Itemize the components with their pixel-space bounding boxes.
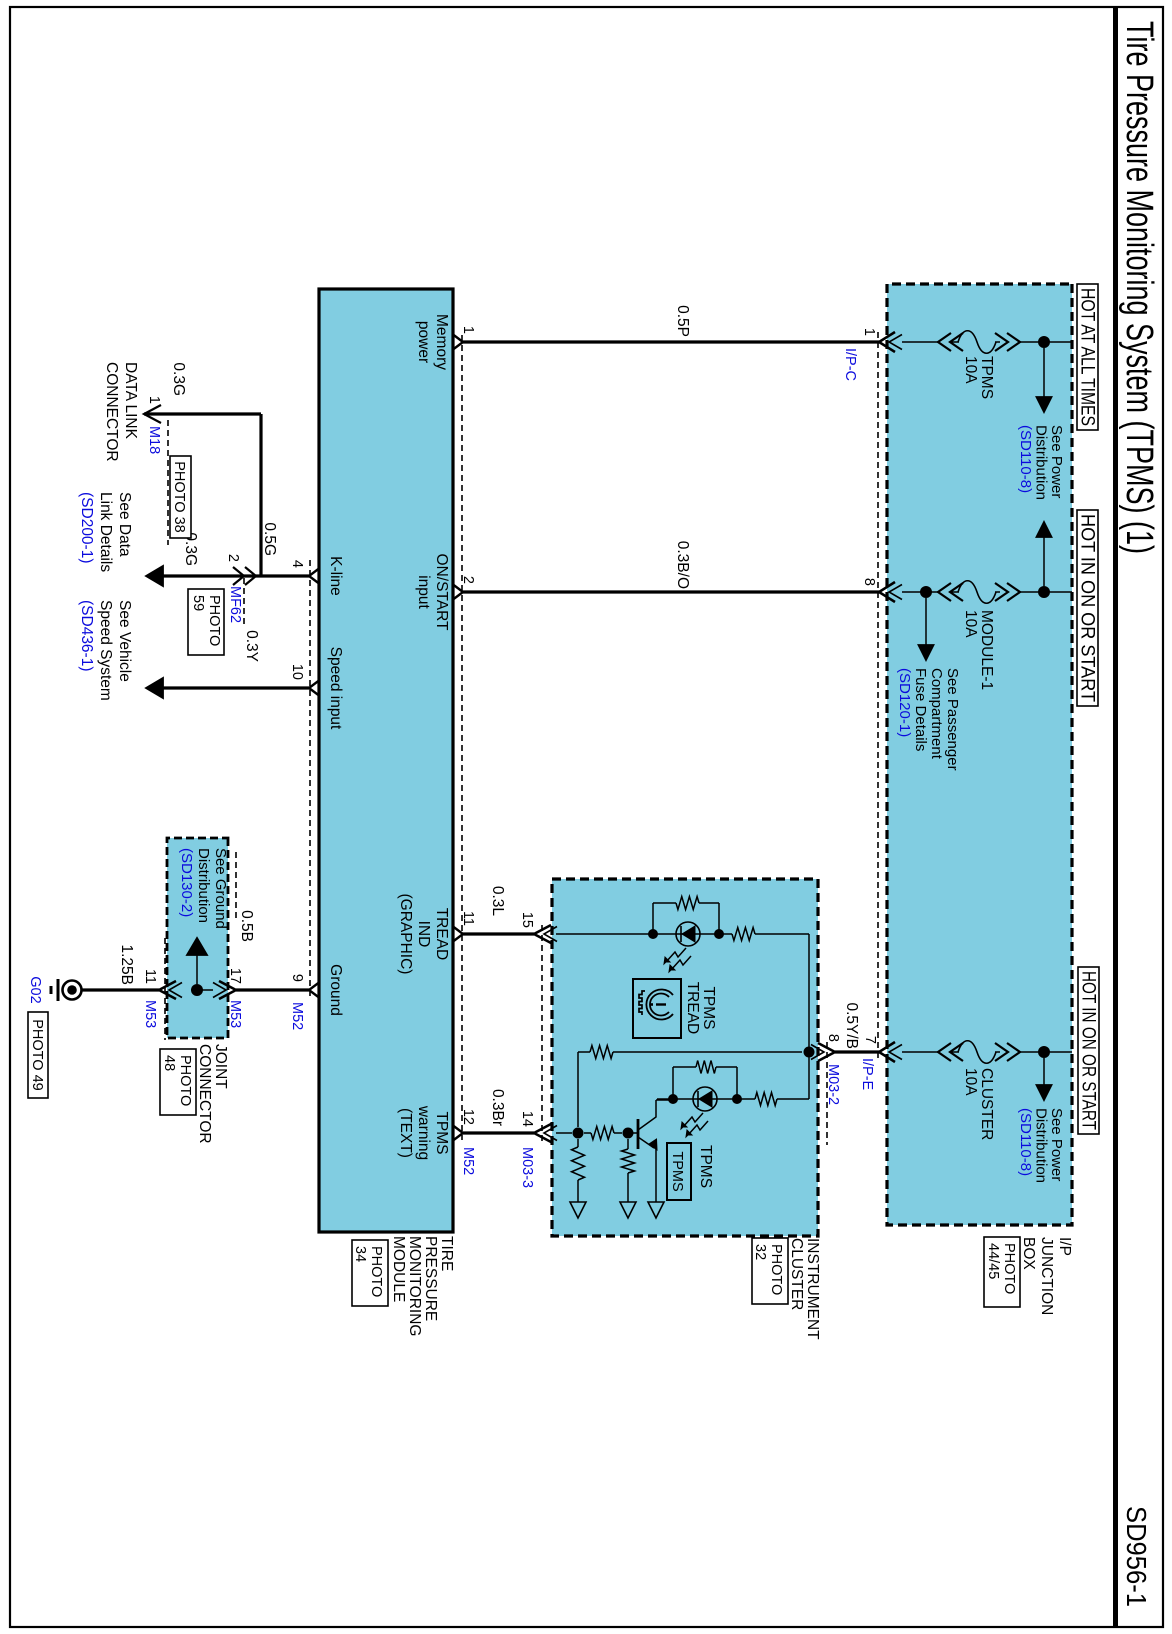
svg-text:CONNECTOR: CONNECTOR <box>103 362 120 462</box>
svg-text:Link Details: Link Details <box>97 492 114 572</box>
svg-text:Distribution: Distribution <box>195 848 212 923</box>
tire pressure monitoring module box <box>319 289 453 1232</box>
svg-text:See Ground: See Ground <box>212 848 229 929</box>
inline connector chevrons above fuse MODULE-1 <box>1007 583 1020 601</box>
fuse CLUSTER element <box>958 1041 996 1064</box>
svg-text:8: 8 <box>825 1034 841 1042</box>
wire module pin12 to cluster pin14, 0.3Br <box>463 1131 534 1134</box>
filled arrow down SD436-1 <box>146 678 163 698</box>
svg-text:input: input <box>415 575 432 609</box>
resistor parallel to LED2 <box>736 1067 738 1099</box>
svg-text:2: 2 <box>460 576 476 584</box>
svg-text:HOT IN ON OR START: HOT IN ON OR START <box>1078 971 1099 1130</box>
ground arrow (emitter) <box>648 1202 664 1218</box>
node LED2 bottom <box>668 1094 678 1104</box>
svg-text:1: 1 <box>861 328 877 336</box>
cluster pin 8 chevrons M03-2 <box>818 1043 835 1061</box>
svg-text:IND: IND <box>415 921 432 948</box>
svg-text:(SD110-8): (SD110-8) <box>1017 425 1034 493</box>
instrument cluster box <box>552 879 818 1236</box>
svg-text:Memory: Memory <box>433 314 450 370</box>
svg-text:(SD200-1): (SD200-1) <box>78 492 95 564</box>
svg-text:(SD120-1): (SD120-1) <box>896 668 913 737</box>
inline connector chevrons below fuse TPMS <box>950 333 963 351</box>
svg-text:warning: warning <box>415 1105 432 1160</box>
wire module pin11 to cluster pin15, 0.3L <box>463 932 534 935</box>
TPMS warning text box <box>667 1143 691 1200</box>
fuse CLUSTER rail <box>1050 1051 1072 1053</box>
svg-text:0.3Br: 0.3Br <box>489 1089 506 1126</box>
joint connector inner wire + dot <box>197 989 213 991</box>
link from TPMS rail to See Power Distribution <box>1043 348 1045 398</box>
junction dot MODULE-1 output <box>920 586 932 598</box>
svg-text:CLUSTER: CLUSTER <box>788 1238 805 1310</box>
arrow to power distribution (left) <box>1037 522 1052 537</box>
junction dot transistor base <box>623 1128 634 1139</box>
module pin 11 chevron <box>453 927 463 942</box>
svg-text:44/45: 44/45 <box>985 1243 1001 1279</box>
svg-text:TPMS: TPMS <box>978 356 995 399</box>
data link connector pin 1 chevron M18 <box>144 405 161 423</box>
joint connector dashed line top <box>235 852 237 918</box>
svg-text:12: 12 <box>460 1109 476 1125</box>
svg-text:0.3G: 0.3G <box>170 362 187 396</box>
svg-text:17: 17 <box>227 968 243 984</box>
svg-text:PHOTO: PHOTO <box>768 1244 784 1295</box>
inline connector chevrons below fuse CLUSTER <box>950 1043 963 1061</box>
arrow to fuse details <box>919 645 934 660</box>
svg-text:See Data: See Data <box>116 492 133 557</box>
svg-text:48: 48 <box>161 1055 177 1071</box>
svg-text:HOT IN ON OR START: HOT IN ON OR START <box>1077 514 1098 702</box>
svg-text:Speed System: Speed System <box>97 600 114 701</box>
svg-text:2: 2 <box>225 554 241 562</box>
HOT IN ON OR START label 1 <box>1077 510 1098 706</box>
PHOTO 59 box <box>188 589 224 655</box>
transistor Q1 <box>628 1132 638 1134</box>
node LED1 bottom <box>648 929 658 939</box>
svg-text:Distribution: Distribution <box>1033 425 1050 500</box>
svg-text:M53: M53 <box>227 1000 243 1028</box>
ground arrow (pin14 pulldown) <box>570 1202 586 1218</box>
svg-text:I/P: I/P <box>1056 1237 1073 1256</box>
svg-text:PRESSURE: PRESSURE <box>422 1236 439 1321</box>
svg-text:JOINT: JOINT <box>212 1044 229 1089</box>
svg-text:MODULE: MODULE <box>390 1236 407 1302</box>
node LED2 top <box>732 1094 742 1104</box>
ground symbol G02 <box>63 981 82 1000</box>
svg-text:M03-2: M03-2 <box>825 1064 841 1105</box>
title separator line <box>1113 7 1118 1627</box>
cluster connector dashed line bottom <box>541 925 543 1145</box>
PHOTO 44/45 box <box>984 1237 1020 1307</box>
joint connector box <box>167 838 228 1038</box>
svg-text:SD956-1: SD956-1 <box>1121 1506 1152 1607</box>
svg-text:TPMS: TPMS <box>697 1145 714 1188</box>
svg-text:Compartment: Compartment <box>928 668 945 760</box>
svg-text:0.3L: 0.3L <box>489 886 506 917</box>
svg-text:(SD110-8): (SD110-8) <box>1017 1108 1034 1176</box>
svg-text:4: 4 <box>289 560 305 568</box>
svg-text:G02: G02 <box>27 976 43 1003</box>
svg-text:K-line: K-line <box>327 556 344 596</box>
pulldown resistor at base node <box>627 1139 629 1149</box>
svg-text:1.25B: 1.25B <box>118 944 135 985</box>
TPMS tread indicator icon box <box>633 979 681 1038</box>
svg-text:ON/START: ON/START <box>433 554 450 631</box>
svg-text:9: 9 <box>289 974 305 982</box>
svg-text:HOT AT ALL TIMES: HOT AT ALL TIMES <box>1077 288 1098 426</box>
svg-text:TPMS: TPMS <box>700 986 717 1029</box>
resistor parallel to LED1 <box>652 903 654 934</box>
svg-text:Tire Pressure Monitoring Syste: Tire Pressure Monitoring System (TPMS) (… <box>1118 21 1160 554</box>
inline connector chevrons above fuse CLUSTER <box>1007 1043 1020 1061</box>
svg-text:0.3Y: 0.3Y <box>243 630 260 662</box>
svg-text:PHOTO: PHOTO <box>368 1246 384 1297</box>
svg-text:8: 8 <box>861 578 877 586</box>
fuse TPMS element <box>958 331 996 354</box>
filled arrow down SD200-1 <box>146 566 163 586</box>
PHOTO 32 box <box>752 1238 788 1304</box>
LED D1 (tread indicator) <box>676 922 700 946</box>
svg-text:10A: 10A <box>962 356 979 384</box>
svg-text:TIRE: TIRE <box>438 1236 455 1271</box>
svg-text:See Power: See Power <box>1048 1108 1065 1181</box>
wire pin7 I/P-E to cluster pin 8, 0.5Y/B <box>835 1050 879 1053</box>
svg-text:TPMS: TPMS <box>669 1151 685 1191</box>
svg-text:DATA LINK: DATA LINK <box>122 362 139 440</box>
svg-text:PHOTO 38: PHOTO 38 <box>171 461 187 532</box>
svg-text:0.5Y/B: 0.5Y/B <box>843 1002 860 1049</box>
svg-text:I/P-E: I/P-E <box>859 1058 875 1091</box>
svg-text:1: 1 <box>146 396 162 404</box>
svg-text:CLUSTER: CLUSTER <box>978 1068 995 1140</box>
LED D2 (TPMS warning) <box>693 1087 717 1111</box>
module connector dashed line (top) <box>461 335 463 1140</box>
wire cluster pin 14 up to node <box>556 1132 572 1134</box>
I/P junction box <box>887 284 1072 1225</box>
svg-text:M03-3: M03-3 <box>519 1147 535 1188</box>
svg-text:I/P-C: I/P-C <box>842 348 858 381</box>
inline connector chevrons below fuse MODULE-1 <box>950 583 963 601</box>
module pin 12 chevron <box>453 1126 463 1141</box>
joint connector junction dot <box>191 984 203 996</box>
arrow to power distribution <box>1037 397 1052 412</box>
junction dot TPMS rail <box>1038 336 1050 348</box>
junction box pin chevrons at MODULE-1 output <box>889 585 902 600</box>
joint connector pin 11 chevrons <box>159 981 176 999</box>
svg-text:34: 34 <box>352 1246 368 1262</box>
svg-text:PHOTO 49: PHOTO 49 <box>29 1019 45 1090</box>
svg-text:10: 10 <box>289 664 305 680</box>
junction box pin chevrons at TPMS output <box>889 335 902 350</box>
svg-text:59: 59 <box>190 595 206 611</box>
wire node to LED1 branch corner <box>808 934 810 1052</box>
junction dot base/pulldown <box>573 1128 584 1139</box>
resistor in series with LED2 <box>755 1093 777 1106</box>
cluster pin 15 chevrons <box>534 925 551 943</box>
svg-text:MODULE-1: MODULE-1 <box>978 610 995 690</box>
resistor base series <box>584 1132 591 1134</box>
resistor in series with LED1 <box>719 933 732 935</box>
svg-text:11: 11 <box>460 911 476 926</box>
LED2 emission arrows <box>683 1113 703 1127</box>
svg-text:(SD130-2): (SD130-2) <box>178 848 195 917</box>
wire module pin 4 K-line down <box>162 574 309 577</box>
branch wire to data link connector <box>259 414 262 576</box>
svg-text:TREAD: TREAD <box>684 982 701 1035</box>
arrow to power distribution (cluster) <box>1037 1085 1052 1100</box>
wire module pin 10 speed input, 0.3Y <box>162 686 309 689</box>
PHOTO 48 box <box>160 1049 196 1115</box>
svg-text:M52: M52 <box>289 1002 305 1030</box>
svg-text:Ground: Ground <box>327 964 344 1016</box>
pulldown resistor at pin14 node <box>577 1139 579 1147</box>
svg-text:MF62: MF62 <box>227 586 243 623</box>
svg-text:M52: M52 <box>460 1147 476 1175</box>
svg-text:See Vehicle: See Vehicle <box>116 600 133 682</box>
wire node to LED2 branch <box>808 1052 810 1099</box>
svg-text:(GRAPHIC): (GRAPHIC) <box>397 894 414 975</box>
svg-text:PHOTO: PHOTO <box>177 1055 193 1106</box>
HOT IN ON OR START label 2 <box>1078 967 1099 1134</box>
wire pin1 I/P-C to module pin 1, 0.5P <box>463 340 879 343</box>
module connector dashed line (bottom) <box>309 560 311 1000</box>
svg-text:MONITORING: MONITORING <box>406 1236 423 1336</box>
svg-text:0.3B/O: 0.3B/O <box>674 541 691 589</box>
svg-text:11: 11 <box>142 969 158 984</box>
junction box pin chevrons at CLUSTER output <box>889 1045 902 1060</box>
MF62 connector dashed line <box>243 578 245 625</box>
svg-text:10A: 10A <box>962 610 979 638</box>
wire LED2 to transistor collector <box>657 1098 673 1100</box>
module pin 1 chevron <box>453 335 463 350</box>
svg-text:0.5G: 0.5G <box>261 522 278 556</box>
svg-text:Speed input: Speed input <box>327 647 344 730</box>
svg-text:1: 1 <box>460 326 476 334</box>
svg-text:PHOTO: PHOTO <box>1001 1243 1017 1294</box>
module pin 10 chevron <box>309 681 319 696</box>
svg-text:TREAD: TREAD <box>433 908 450 961</box>
node LED1 top <box>714 929 724 939</box>
svg-text:10A: 10A <box>962 1068 979 1096</box>
tread icon <box>639 990 673 1020</box>
svg-text:0.5P: 0.5P <box>674 305 691 337</box>
PHOTO 49 box <box>28 1012 48 1098</box>
ground arrow (base pulldown) <box>620 1202 636 1218</box>
junction dot CLUSTER rail <box>1038 1046 1050 1058</box>
svg-text:See Power: See Power <box>1048 425 1065 498</box>
link from MODULE-1 rail to See Power Distribution <box>1043 536 1045 586</box>
junction dot MODULE-1 rail <box>1038 586 1050 598</box>
junction box connector dashed line <box>877 332 879 1062</box>
module pin 2 chevron <box>453 585 463 600</box>
LED1 emission arrows <box>666 948 686 962</box>
joint connector pin 17 chevrons <box>219 981 236 999</box>
node cluster pin8 <box>804 1047 815 1058</box>
module pin 9 chevron <box>309 983 319 998</box>
inline connector chevrons above fuse TPMS <box>1007 333 1020 351</box>
svg-text:Fuse Details: Fuse Details <box>912 668 929 751</box>
joint connector dashed line bottom <box>164 938 166 1040</box>
fuse MODULE-1 rail <box>1050 591 1072 593</box>
svg-text:INSTRUMENT: INSTRUMENT <box>804 1238 821 1340</box>
PHOTO 38 box <box>170 456 191 538</box>
svg-text:CONNECTOR: CONNECTOR <box>196 1044 213 1144</box>
module pin 4 chevron <box>309 569 319 584</box>
svg-text:14: 14 <box>519 1111 535 1127</box>
wire joint pin 11 to ground, 1.25B <box>82 988 159 991</box>
svg-text:M18: M18 <box>146 426 162 454</box>
svg-text:Distribution: Distribution <box>1033 1108 1050 1183</box>
svg-text:(TEXT): (TEXT) <box>397 1108 414 1158</box>
middle resistor from node A to transistor base line <box>613 1051 802 1053</box>
svg-text:TPMS: TPMS <box>433 1111 450 1154</box>
arrow to ground distribution <box>187 938 207 955</box>
svg-text:(SD436-1): (SD436-1) <box>78 600 95 672</box>
wire pin8 to module pin 2, 0.3B/O <box>463 590 879 593</box>
svg-text:7: 7 <box>862 1036 878 1044</box>
svg-text:BOX: BOX <box>1020 1237 1037 1270</box>
LED1 wire from pin 15 <box>556 933 653 935</box>
svg-text:power: power <box>415 321 432 363</box>
cluster connector dashed line top <box>826 1042 828 1145</box>
M18 connector dashed line <box>167 420 169 545</box>
svg-text:PHOTO: PHOTO <box>206 595 222 646</box>
svg-text:15: 15 <box>519 912 535 928</box>
svg-text:32: 32 <box>752 1244 768 1260</box>
cluster pin 14 chevrons M03-3 <box>534 1124 551 1142</box>
fuse MODULE-1 element <box>958 581 996 604</box>
wire module pin 9 to joint connector, 0.5B <box>236 988 309 991</box>
svg-text:See Passenger: See Passenger <box>944 668 961 771</box>
svg-text:M53: M53 <box>142 1000 158 1028</box>
svg-text:0.5B: 0.5B <box>238 910 255 942</box>
HOT AT ALL TIMES label <box>1077 284 1098 430</box>
svg-text:JUNCTION: JUNCTION <box>1038 1237 1055 1315</box>
PHOTO 34 box <box>352 1240 388 1306</box>
MF62 inline connector chevrons <box>245 567 256 585</box>
link from CLUSTER rail to See Power Distribution <box>1043 1058 1045 1086</box>
fuse TPMS rail <box>1050 341 1072 343</box>
